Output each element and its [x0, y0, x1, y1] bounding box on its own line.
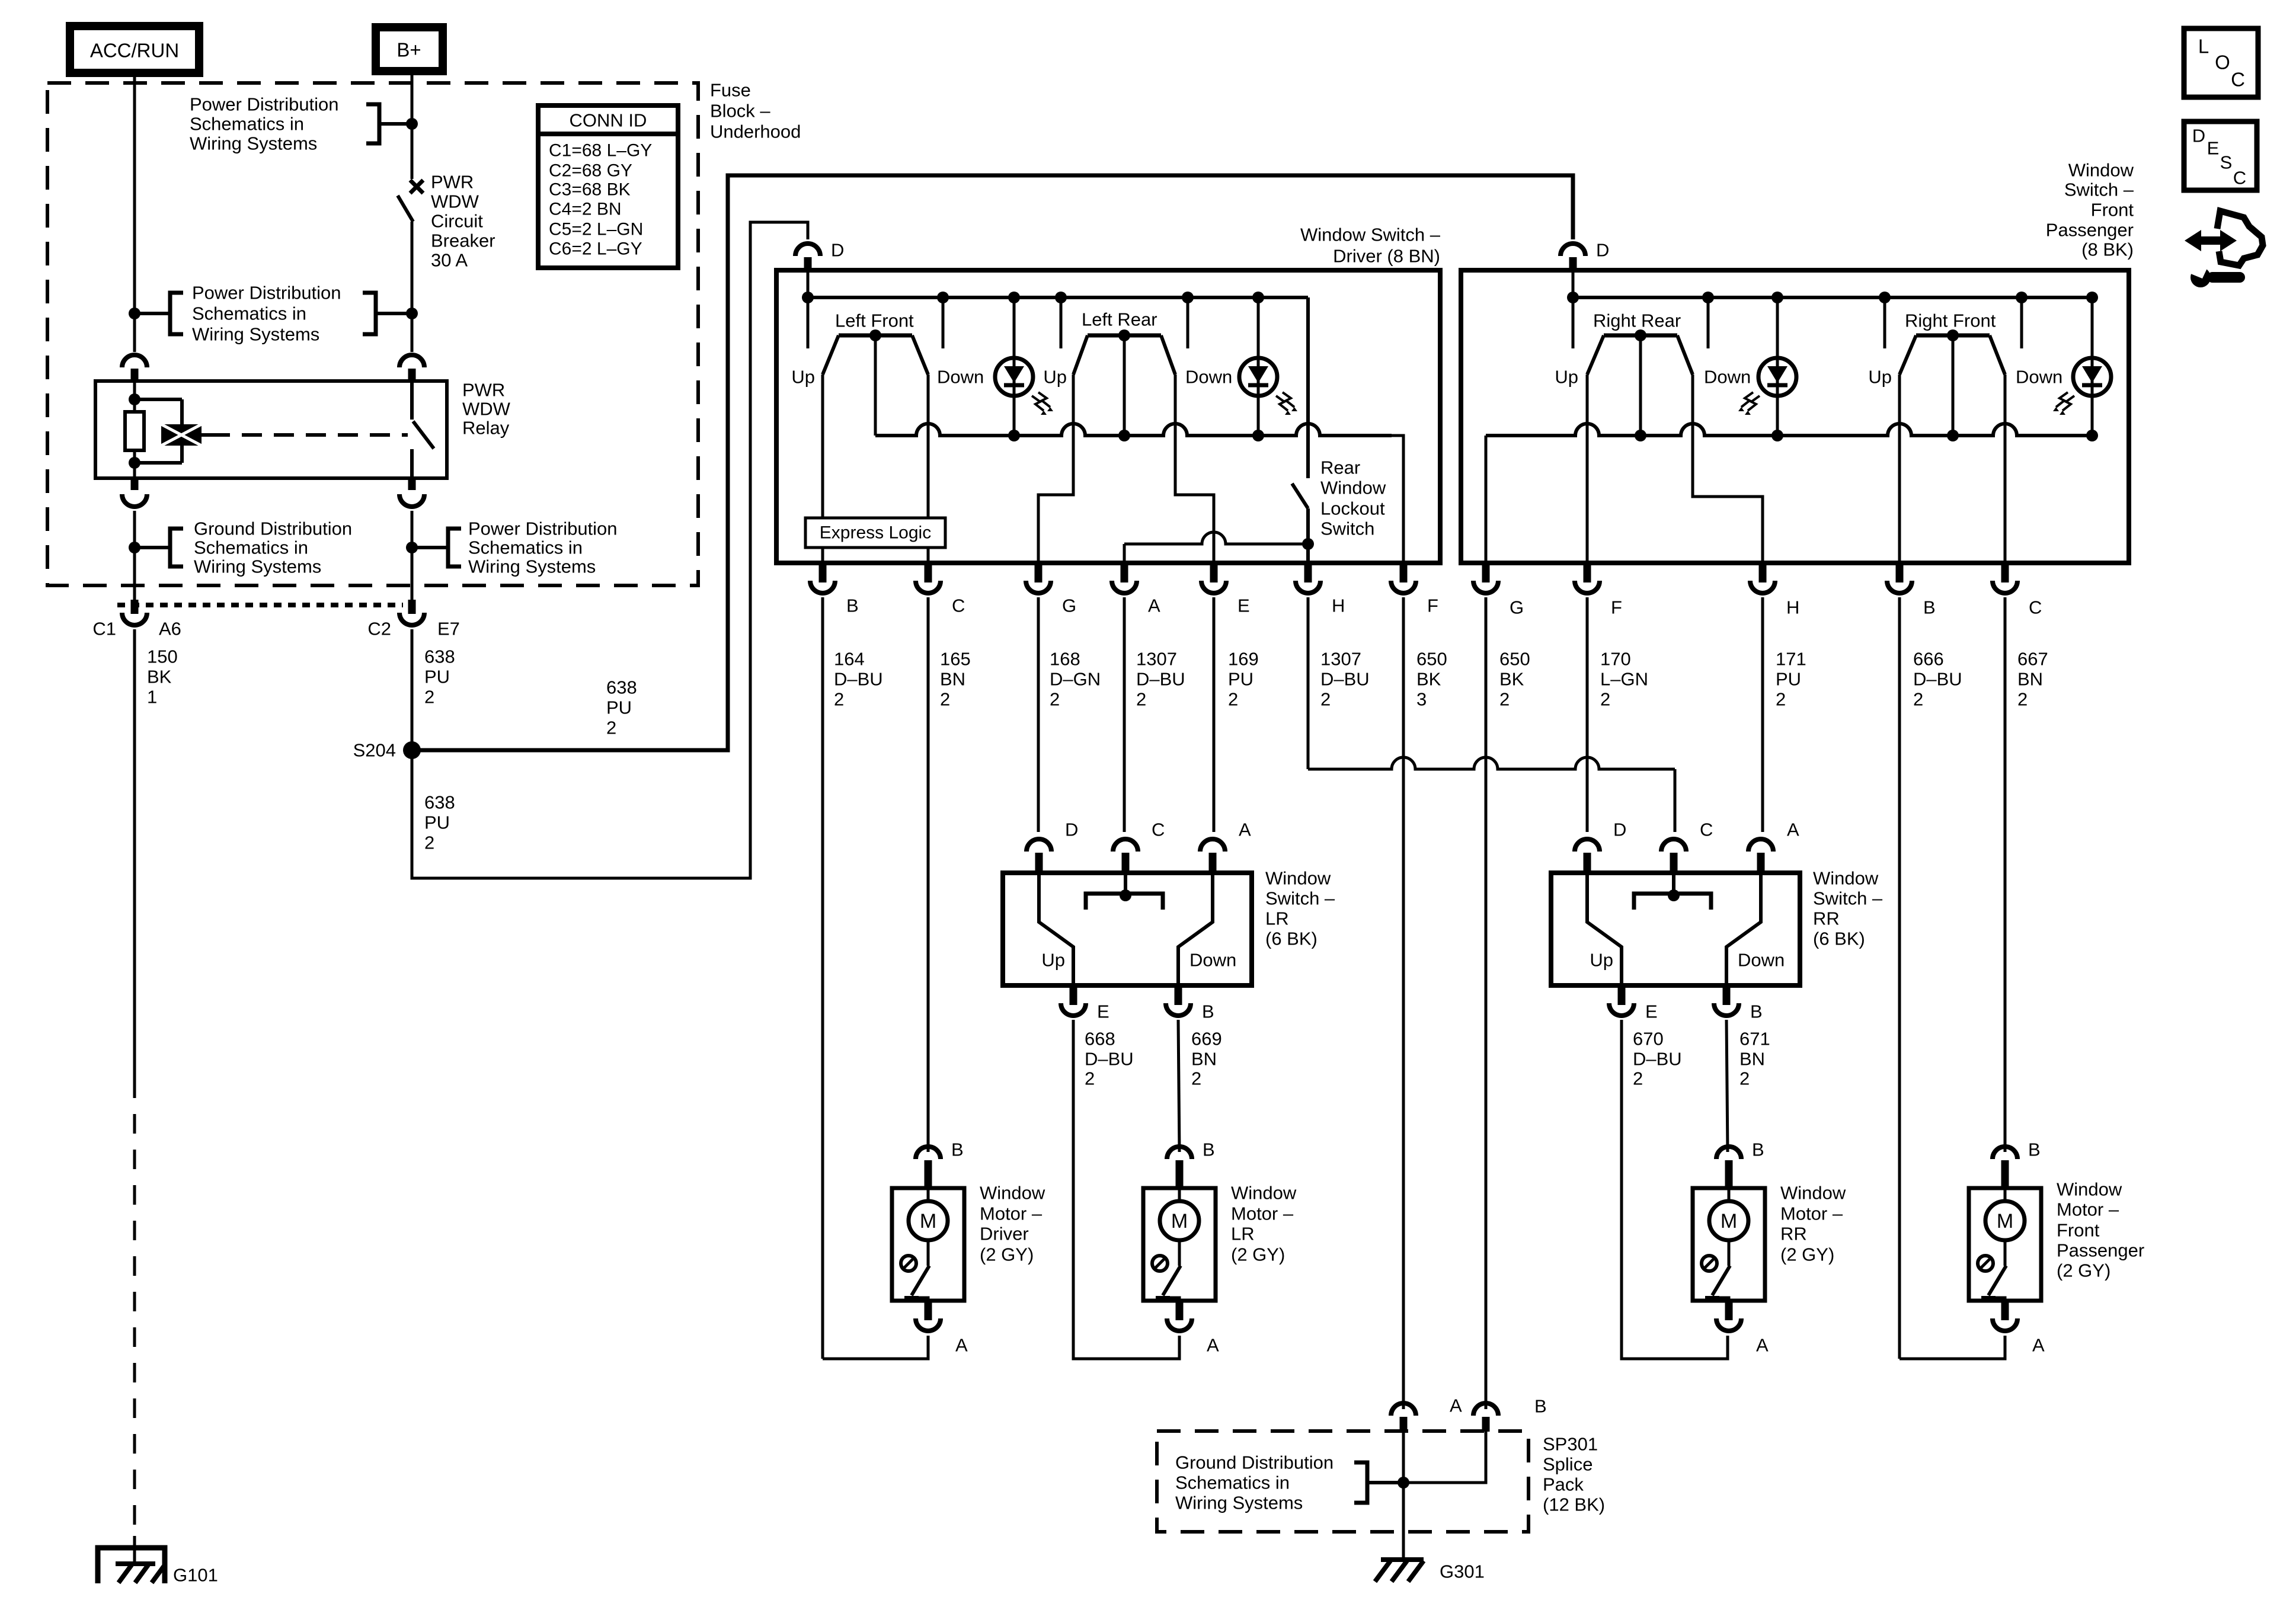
svg-text:D–BU: D–BU — [834, 669, 883, 690]
svg-text:A: A — [1207, 1335, 1219, 1356]
svg-text:PWR: PWR — [462, 380, 505, 401]
connector window motor LR pin B — [1167, 1140, 1215, 1189]
connector window motor driver pin A — [916, 1301, 968, 1356]
connector driver switch pin B — [810, 563, 859, 616]
svg-text:PU: PU — [1228, 669, 1253, 690]
svg-text:Passenger: Passenger — [2057, 1240, 2144, 1261]
svg-text:(2 GY): (2 GY) — [1231, 1244, 1285, 1265]
relay PWR WDW Relay box — [95, 381, 447, 478]
svg-text:Up: Up — [791, 367, 815, 388]
switch LR internals — [1039, 873, 1236, 985]
svg-text:165: 165 — [940, 649, 971, 670]
wire 170 L-GN 2 (passenger pin F) — [1587, 597, 1648, 832]
svg-text:Power Distribution: Power Distribution — [192, 283, 341, 303]
wire 668 D&#8211;BU 2 (LR pin E) — [1073, 1020, 1179, 1359]
svg-text:650: 650 — [1416, 649, 1447, 670]
splice S204 — [353, 740, 421, 761]
svg-text:Up: Up — [1868, 367, 1892, 388]
svg-text:Window Switch –: Window Switch – — [1300, 225, 1441, 245]
svg-text:D–GN: D–GN — [1050, 669, 1101, 690]
label Window Motor front passenger — [2057, 1179, 2144, 1281]
wire 169 PU 2 (pin E) — [1214, 597, 1259, 832]
label PWR WDW Circuit Breaker 30 A — [431, 172, 495, 271]
svg-text:C1=68 L–GY: C1=68 L–GY — [549, 141, 652, 161]
svg-text:C3=68 BK: C3=68 BK — [549, 180, 631, 200]
svg-text:Driver: Driver — [980, 1224, 1029, 1244]
connector window switch LR pin E — [1061, 985, 1109, 1022]
label Window Switch - Front Passenger (8 BK) — [2046, 160, 2134, 260]
svg-text:638: 638 — [424, 792, 455, 813]
svg-text:C5=2 L–GN: C5=2 L–GN — [549, 220, 643, 239]
wire 650 BK 3 (pin F) — [1403, 597, 1447, 1393]
connector relay coil top (ACC/RUN) — [122, 355, 147, 381]
svg-text:2: 2 — [1633, 1068, 1643, 1089]
switch Left Front — [791, 311, 984, 436]
connector window motor driver pin B — [916, 1140, 964, 1189]
ground G301 — [1375, 1560, 1485, 1582]
connector window switch RR pin A — [1748, 820, 1799, 873]
connector window switch LR pin C — [1113, 820, 1165, 873]
wire 168 D-GN 2 (pin G) — [1038, 597, 1101, 832]
connector window switch LR pin B — [1166, 985, 1214, 1022]
svg-text:WDW: WDW — [462, 399, 511, 420]
svg-text:A: A — [955, 1335, 968, 1356]
svg-text:G: G — [1510, 597, 1524, 618]
svg-text:H: H — [1786, 597, 1799, 618]
label Ground Distribution (SP301) with bracket — [1175, 1452, 1403, 1513]
svg-text:650: 650 — [1499, 649, 1530, 670]
splice pack SP301 dashed box — [1157, 1431, 1528, 1532]
window switch LR box — [1003, 873, 1252, 985]
svg-text:Down: Down — [937, 367, 984, 388]
svg-text:Front: Front — [2057, 1220, 2100, 1241]
svg-text:Window: Window — [1780, 1183, 1846, 1204]
svg-text:2: 2 — [1499, 689, 1510, 710]
svg-text:Right Rear: Right Rear — [1593, 311, 1681, 331]
svg-text:B: B — [1203, 1140, 1215, 1160]
svg-text:C4=2 BN: C4=2 BN — [549, 200, 622, 219]
svg-text:D–BU: D–BU — [1913, 669, 1962, 690]
svg-text:A: A — [1756, 1335, 1769, 1356]
svg-text:671: 671 — [1739, 1029, 1770, 1049]
connector window motor front passenger pin B — [1993, 1140, 2041, 1189]
svg-text:668: 668 — [1085, 1029, 1115, 1049]
express logic box — [805, 518, 945, 548]
label Window Switch - LR (6 BK) — [1265, 868, 1335, 949]
svg-text:G101: G101 — [173, 1565, 218, 1586]
svg-text:B: B — [1202, 1001, 1214, 1022]
svg-text:C: C — [952, 596, 965, 616]
driver switch lower bus — [875, 424, 1403, 563]
connector SP301 pin A — [1391, 1393, 1462, 1432]
svg-text:M: M — [1997, 1210, 2013, 1233]
svg-text:Motor –: Motor – — [1231, 1204, 1294, 1224]
wire 150 BK 1 — [135, 629, 178, 1541]
svg-text:666: 666 — [1913, 649, 1944, 670]
svg-text:1307: 1307 — [1136, 649, 1177, 670]
wire pin A to lockout — [1124, 532, 1308, 563]
svg-text:D–BU: D–BU — [1633, 1049, 1682, 1070]
svg-text:A: A — [1148, 596, 1160, 616]
svg-text:A: A — [1787, 820, 1799, 840]
svg-text:Wiring Systems: Wiring Systems — [192, 324, 319, 345]
svg-text:2: 2 — [1600, 689, 1610, 710]
svg-text:F: F — [1611, 597, 1622, 618]
svg-text:2: 2 — [2017, 689, 2028, 710]
LED right front — [2053, 297, 2111, 436]
LED right rear — [1738, 297, 1796, 436]
svg-text:B: B — [1752, 1140, 1764, 1160]
svg-text:BK: BK — [1416, 669, 1441, 690]
label Window Motor RR — [1780, 1183, 1846, 1265]
svg-text:Fuse: Fuse — [710, 80, 751, 101]
svg-text:2: 2 — [606, 718, 616, 738]
svg-text:2: 2 — [1191, 1068, 1201, 1089]
svg-text:C6=2 L–GY: C6=2 L–GY — [549, 239, 642, 259]
svg-text:638: 638 — [606, 677, 637, 698]
wire 650 BK 2 (passenger pin G) — [1486, 597, 1530, 1393]
svg-text:Schematics in: Schematics in — [1175, 1473, 1290, 1493]
svg-text:BK: BK — [147, 667, 172, 687]
connector passenger switch pin D — [1560, 240, 1609, 271]
svg-text:1: 1 — [147, 687, 157, 708]
svg-text:C: C — [2231, 69, 2245, 91]
svg-text:Switch: Switch — [1320, 518, 1374, 539]
svg-text:2: 2 — [1050, 689, 1060, 710]
svg-text:Switch –: Switch – — [1265, 888, 1335, 909]
svg-text:BN: BN — [1191, 1049, 1217, 1070]
passenger switch lower bus — [1486, 424, 2098, 563]
label Window Switch - Driver (8 BN) — [1300, 225, 1441, 267]
svg-text:O: O — [2215, 52, 2230, 73]
svg-text:D–BU: D–BU — [1320, 669, 1370, 690]
svg-text:Left Rear: Left Rear — [1082, 309, 1157, 330]
wire 638 PU 2 (C2 to S204) — [412, 629, 455, 750]
svg-text:Window: Window — [1265, 868, 1331, 889]
svg-text:Window: Window — [1231, 1183, 1297, 1204]
terminal ACC/RUN — [70, 26, 199, 73]
connector SP301 pin B — [1473, 1393, 1547, 1432]
rear window lockout switch — [1292, 297, 1386, 563]
svg-text:Wiring Systems: Wiring Systems — [1175, 1493, 1303, 1513]
switch Left Rear — [1043, 309, 1232, 436]
connector row dotted line — [117, 603, 403, 607]
svg-text:M: M — [920, 1210, 936, 1233]
wire right front down contact to pin C — [2004, 375, 2007, 563]
svg-text:B: B — [1750, 1001, 1763, 1022]
svg-text:1307: 1307 — [1320, 649, 1361, 670]
svg-text:L–GN: L–GN — [1600, 669, 1648, 690]
switch Right Rear — [1555, 311, 1751, 436]
svg-text:Left Front: Left Front — [835, 311, 914, 331]
svg-text:Block –: Block – — [710, 101, 770, 121]
svg-text:Wiring Systems: Wiring Systems — [194, 556, 321, 577]
wire B+ vertical upper — [411, 71, 414, 179]
window switch front passenger box — [1461, 270, 2129, 563]
svg-text:Rear: Rear — [1320, 457, 1360, 478]
svg-text:(2 GY): (2 GY) — [980, 1244, 1034, 1265]
svg-text:Schematics in: Schematics in — [194, 537, 308, 558]
svg-text:Underhood: Underhood — [710, 121, 801, 142]
svg-text:Schematics in: Schematics in — [190, 114, 304, 135]
svg-text:638: 638 — [424, 646, 455, 667]
svg-text:C1: C1 — [92, 619, 116, 639]
svg-text:RR: RR — [1813, 908, 1840, 929]
motor M window motor front passenger — [1969, 1188, 2041, 1301]
icon DESC box — [2184, 121, 2257, 190]
svg-text:Down: Down — [1738, 950, 1785, 971]
svg-text:M: M — [1721, 1210, 1737, 1233]
svg-text:A: A — [1450, 1395, 1462, 1416]
wire 1307 D-BU 2 (pin A) — [1124, 597, 1185, 832]
label Power Distribution (right) with bracket — [412, 518, 618, 577]
connector relay bottom right — [399, 478, 424, 601]
wire 669 BN 2 (LR pin B) — [1178, 1020, 1222, 1152]
connector driver switch pin H — [1296, 563, 1345, 616]
svg-text:Schematics in: Schematics in — [468, 537, 583, 558]
svg-text:2: 2 — [424, 687, 434, 708]
wire 171 PU 2 (passenger pin H) — [1763, 597, 1806, 832]
svg-text:C2=68 GY: C2=68 GY — [549, 161, 632, 181]
svg-text:C2: C2 — [367, 619, 391, 639]
svg-text:2: 2 — [1913, 689, 1923, 710]
svg-text:A: A — [2032, 1335, 2045, 1356]
relay switch — [412, 381, 434, 478]
connector driver switch pin C — [916, 563, 965, 616]
svg-text:169: 169 — [1228, 649, 1259, 670]
connector window switch RR pin D — [1575, 820, 1626, 873]
svg-text:D: D — [1613, 820, 1626, 840]
connector relay bottom left — [122, 478, 147, 601]
connector passenger switch pin G — [1473, 563, 1524, 618]
wire SP301 internal — [1398, 1432, 1486, 1560]
connector passenger switch pin C — [1993, 563, 2042, 618]
svg-text:Window: Window — [980, 1183, 1045, 1204]
svg-text:2: 2 — [1739, 1068, 1750, 1089]
wire S204 to passenger switch pin D (638 PU 2) — [412, 175, 1573, 750]
svg-text:Wiring Systems: Wiring Systems — [468, 556, 596, 577]
svg-text:2: 2 — [834, 689, 844, 710]
wire driver motor A loop — [823, 1336, 928, 1359]
svg-text:(2 GY): (2 GY) — [2057, 1260, 2110, 1281]
svg-text:PU: PU — [424, 812, 450, 833]
svg-text:C: C — [1700, 820, 1713, 840]
label Power Distribution (middle) with brackets — [135, 283, 412, 345]
svg-text:E: E — [2207, 138, 2220, 159]
svg-text:Splice: Splice — [1543, 1454, 1593, 1475]
connector driver switch pin G — [1026, 563, 1076, 616]
icon LOC box — [2184, 28, 2258, 97]
connector window switch RR pin B — [1714, 985, 1763, 1022]
svg-text:Down: Down — [1185, 367, 1232, 388]
connector window switch RR pin C — [1661, 820, 1713, 873]
svg-text:M: M — [1171, 1210, 1188, 1233]
svg-text:D: D — [2192, 126, 2205, 146]
svg-text:Switch –: Switch – — [2064, 180, 2134, 200]
label Window Motor driver — [980, 1183, 1045, 1265]
svg-text:(6 BK): (6 BK) — [1265, 929, 1318, 949]
svg-text:168: 168 — [1050, 649, 1080, 670]
svg-text:LR: LR — [1265, 908, 1289, 929]
connector driver switch pin E — [1201, 563, 1250, 616]
wire left rear up contact to pin G — [1038, 375, 1073, 563]
svg-text:B+: B+ — [396, 39, 421, 61]
connector window switch LR pin D — [1027, 820, 1078, 873]
svg-text:Lockout: Lockout — [1320, 498, 1385, 519]
window switch driver box — [776, 270, 1440, 563]
svg-text:(8 BK): (8 BK) — [2081, 239, 2134, 260]
connector driver switch pin A — [1112, 563, 1160, 616]
svg-text:170: 170 — [1600, 649, 1631, 670]
wire right rear up contact to pin F — [1586, 375, 1589, 563]
svg-text:B: B — [846, 596, 859, 616]
svg-text:E: E — [1097, 1001, 1109, 1022]
svg-text:Right Front: Right Front — [1905, 311, 1996, 331]
svg-text:670: 670 — [1633, 1029, 1664, 1049]
circuit breaker PWR WDW 30A — [398, 180, 423, 352]
svg-text:Window: Window — [1813, 868, 1879, 889]
ground G101 — [98, 1536, 218, 1586]
svg-text:D: D — [1596, 240, 1609, 261]
LED left rear — [1239, 297, 1297, 436]
svg-text:C: C — [2029, 597, 2042, 618]
switch RR internals — [1587, 873, 1785, 985]
svg-text:BN: BN — [1739, 1049, 1765, 1070]
svg-text:BN: BN — [940, 669, 965, 690]
svg-text:2: 2 — [1085, 1068, 1095, 1089]
svg-text:E: E — [1645, 1001, 1658, 1022]
svg-text:3: 3 — [1416, 689, 1427, 710]
svg-text:D: D — [1065, 820, 1078, 840]
svg-text:Motor –: Motor – — [2057, 1199, 2119, 1220]
label PWR WDW Relay — [462, 380, 511, 438]
svg-text:BK: BK — [1499, 669, 1524, 690]
svg-text:G: G — [1062, 596, 1076, 616]
svg-text:Window: Window — [1320, 478, 1386, 498]
wire 164 D-BU 2 (pin B) — [823, 597, 883, 1359]
svg-text:Down: Down — [1189, 950, 1236, 971]
connector driver switch pin D — [795, 240, 844, 271]
connector passenger switch pin H — [1750, 563, 1799, 618]
svg-text:Wiring Systems: Wiring Systems — [190, 133, 317, 154]
svg-text:A6: A6 — [159, 619, 181, 639]
svg-text:Power Distribution: Power Distribution — [190, 94, 339, 115]
svg-text:Up: Up — [1041, 950, 1065, 971]
svg-text:2: 2 — [1320, 689, 1331, 710]
relay coil — [135, 399, 202, 463]
wire express logic to pin C — [927, 548, 930, 563]
connector driver switch pin F — [1391, 563, 1438, 616]
svg-text:Passenger: Passenger — [2046, 220, 2134, 241]
relay control dashed line — [202, 433, 408, 437]
svg-text:B: B — [1923, 597, 1936, 618]
wire 671 BN 2 (RR pin B) — [1726, 1020, 1770, 1152]
label Ground Distribution (left) with bracket — [135, 518, 352, 577]
svg-text:150: 150 — [147, 646, 178, 667]
svg-text:E7: E7 — [437, 619, 460, 639]
svg-text:2: 2 — [1228, 689, 1238, 710]
connector C2 pin E7 — [367, 600, 460, 639]
svg-text:B: B — [951, 1140, 964, 1160]
svg-text:H: H — [1332, 596, 1345, 616]
svg-text:PU: PU — [606, 697, 632, 718]
svg-text:A: A — [1239, 820, 1251, 840]
svg-text:2: 2 — [1136, 689, 1146, 710]
svg-text:S: S — [2220, 152, 2233, 173]
icon service arrow with wrench — [2185, 211, 2263, 287]
svg-text:PWR: PWR — [431, 172, 474, 193]
label Fuse Block - Underhood — [710, 80, 801, 142]
svg-text:RR: RR — [1780, 1224, 1807, 1244]
svg-text:Ground Distribution: Ground Distribution — [1175, 1452, 1334, 1473]
svg-text:(2 GY): (2 GY) — [1780, 1244, 1834, 1265]
svg-text:LR: LR — [1231, 1224, 1255, 1244]
wire right rear down contact to pin H — [1693, 375, 1763, 563]
switch Right Front — [1868, 311, 2062, 436]
svg-text:Motor –: Motor – — [1780, 1204, 1843, 1224]
passenger switch supply bus — [1567, 270, 2098, 348]
svg-text:PU: PU — [1776, 669, 1801, 690]
svg-text:Relay: Relay — [462, 418, 510, 438]
svg-text:Up: Up — [1590, 950, 1613, 971]
svg-text:Up: Up — [1555, 367, 1578, 388]
svg-text:CONN ID: CONN ID — [570, 110, 647, 131]
wire S204 to driver switch pin D (638 PU 2) — [412, 222, 808, 878]
svg-text:Window: Window — [2057, 1179, 2122, 1200]
svg-text:G301: G301 — [1440, 1561, 1485, 1582]
svg-text:Ground Distribution: Ground Distribution — [194, 518, 352, 539]
svg-text:L: L — [2198, 36, 2209, 57]
relay resistor — [125, 381, 144, 478]
svg-text:Motor –: Motor – — [980, 1204, 1043, 1224]
svg-text:171: 171 — [1776, 649, 1806, 670]
LED left front — [995, 297, 1053, 436]
svg-text:2: 2 — [424, 833, 434, 853]
svg-text:Breaker: Breaker — [431, 231, 495, 251]
svg-text:SP301: SP301 — [1543, 1434, 1598, 1455]
connector relay switch top (B+) — [399, 355, 424, 381]
connector C1 pin A6 — [92, 600, 181, 639]
terminal B+ — [376, 27, 443, 71]
connector passenger switch pin F — [1575, 563, 1622, 618]
wire left front down contact to express logic — [927, 375, 930, 518]
svg-text:Window: Window — [2068, 160, 2134, 181]
wire ACC/RUN vertical — [129, 73, 140, 352]
svg-text:B: B — [1534, 1396, 1547, 1417]
svg-text:Driver (8 BN): Driver (8 BN) — [1333, 246, 1440, 267]
svg-text:WDW: WDW — [431, 191, 479, 212]
motor M window motor driver — [892, 1188, 964, 1301]
svg-text:669: 669 — [1191, 1029, 1222, 1049]
wire 666 D-BU 2 (passenger pin B) — [1900, 597, 1962, 1359]
svg-text:(6 BK): (6 BK) — [1813, 929, 1865, 949]
wire 165 BN 2 (pin C) — [928, 597, 971, 1152]
wire right front up contact to pin B — [1898, 375, 1901, 563]
svg-text:D: D — [831, 240, 844, 261]
svg-text:ACC/RUN: ACC/RUN — [90, 40, 179, 62]
label Window Switch - RR (6 BK) — [1813, 868, 1883, 949]
window switch RR box — [1551, 873, 1800, 985]
wire express logic to pin B — [821, 548, 824, 563]
svg-text:Pack: Pack — [1543, 1474, 1584, 1495]
wire 667 BN 2 (passenger pin C) — [2005, 597, 2048, 1152]
connector window motor RR pin B — [1716, 1140, 1764, 1189]
connector window switch LR pin A — [1200, 820, 1251, 873]
svg-text:Power Distribution: Power Distribution — [468, 518, 618, 539]
wire front passenger motor A loop — [1900, 1336, 2005, 1359]
svg-text:30 A: 30 A — [431, 250, 468, 271]
svg-text:BN: BN — [2017, 669, 2043, 690]
